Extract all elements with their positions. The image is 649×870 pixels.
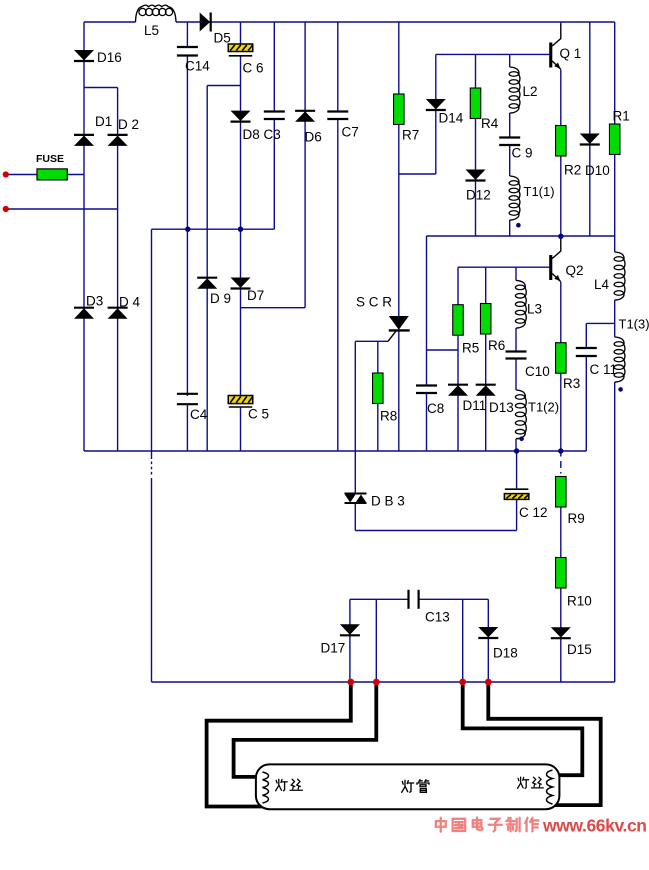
wire R9/R10/D15 vertical [560, 477, 562, 683]
wire C10 to T1(2) [515, 359, 517, 391]
wire C11 bottom to lower rail [585, 356, 587, 451]
junction node A at D8 [238, 227, 243, 232]
label R4 [481, 116, 499, 131]
svg-text:Q 1: Q 1 [560, 46, 582, 61]
diode D5 [200, 13, 211, 32]
svg-text:R2: R2 [564, 163, 581, 178]
label D10 [585, 163, 610, 178]
lamp filament right 灯丝 [547, 770, 553, 804]
wire R1 vertical [614, 22, 616, 236]
wire L4 to T1(3) [614, 300, 616, 337]
label R9 [568, 511, 585, 526]
terminal node input neutral [3, 206, 9, 212]
lamp filament left 灯丝 [263, 772, 269, 803]
capacitor C14 [177, 47, 198, 56]
label L5 [144, 23, 159, 38]
label R3 [563, 376, 580, 391]
wire Q1 base horizontal [436, 53, 550, 55]
label C9 [512, 146, 533, 161]
wire lamp left inner [234, 683, 377, 777]
transistor Q1 [549, 25, 561, 70]
wire C8 vertical upper [426, 236, 428, 386]
wire C6 top stem [240, 22, 242, 44]
diode D1 [74, 135, 94, 146]
wire lamp tap 3 vertical [462, 599, 464, 682]
label C4 [190, 407, 208, 422]
svg-text:D6: D6 [305, 130, 322, 145]
label 灯丝 left [276, 779, 303, 791]
wire C13 left horizontal [350, 598, 408, 600]
wire L2 top stem [509, 54, 511, 67]
capacitor C7 [327, 112, 348, 120]
wire C12 top stem [516, 451, 518, 488]
wire C6/D8/D7 vertical to C5 [240, 56, 242, 396]
label SCR [356, 295, 392, 310]
svg-text:C3: C3 [264, 127, 281, 142]
resistor R8 [373, 373, 384, 404]
capacitor C12 (electrolytic) [504, 489, 528, 499]
transformer winding T1(1) [509, 176, 520, 220]
wire C11 top stem [585, 323, 587, 348]
wire mid node line [427, 235, 615, 237]
capacitor C4 [177, 394, 198, 404]
label 灯丝 right [518, 777, 544, 788]
svg-text:C10: C10 [525, 364, 550, 379]
svg-text:T1(3): T1(3) [619, 317, 649, 332]
wire L3 to C10 [515, 328, 517, 352]
capacitor C9 [499, 138, 520, 146]
wire C13 right horizontal [419, 598, 488, 600]
label C13 [425, 610, 450, 625]
wire R7 to D14 horizontal [399, 173, 436, 175]
transformer winding T1(2) [515, 390, 526, 439]
wire C12 bottom stem [516, 499, 518, 530]
junction lower rail at T1(2)/C12 [514, 448, 519, 453]
svg-text:S C R: S C R [356, 295, 392, 310]
label D4 [119, 295, 141, 310]
svg-text:T1(2): T1(2) [528, 400, 559, 415]
wire Q1 emitter to R2 and node line [560, 70, 562, 237]
capacitor C13 [409, 590, 419, 609]
wire node A vertical lower to lamp node [151, 478, 153, 682]
svg-text:D10: D10 [585, 163, 610, 178]
wire R4/D12 vertical [475, 54, 477, 236]
resistor R1 [609, 124, 620, 155]
label Q2 [566, 263, 584, 278]
wire D17 vertical [349, 599, 351, 682]
wire D10 vertical [589, 22, 591, 236]
label C10 [525, 364, 550, 379]
wire lamp right inner [463, 683, 583, 775]
label D16 [97, 50, 122, 65]
inductor L5 [136, 5, 177, 22]
label R7 [402, 128, 419, 143]
diode D14 [426, 99, 446, 110]
label FUSE [36, 153, 64, 165]
wire C5 bottom to lower rail [240, 407, 242, 451]
svg-text:R10: R10 [567, 594, 592, 609]
wire terminal 2 to D2 line [6, 208, 118, 210]
inductor L3 [515, 280, 526, 328]
diode D13 [476, 385, 496, 396]
svg-text:R6: R6 [488, 338, 505, 353]
label C12 [519, 505, 548, 520]
svg-text:R3: R3 [563, 376, 580, 391]
wire R6/D13 vertical [485, 267, 487, 451]
wire D14 vertical [435, 54, 437, 174]
label D14 [439, 111, 464, 126]
wire branch to D2 line [84, 87, 118, 89]
svg-text:C 11: C 11 [590, 362, 618, 377]
wire lamp left outer [207, 683, 351, 807]
wire T1(3) down right side to lamp node [614, 382, 616, 682]
wire C9 to T1(1) [509, 145, 511, 176]
wire C14 top stem [186, 22, 188, 47]
phase dot T1(3) [618, 387, 623, 392]
wire node to L4 [614, 236, 616, 252]
wire SCR gate horizontal [355, 340, 388, 342]
svg-text:C7: C7 [342, 125, 359, 140]
diode D8 [231, 111, 251, 122]
wire DB3 to C12 horizontal [355, 530, 516, 532]
label D7 [247, 288, 264, 303]
resistor R4 [470, 88, 481, 119]
wire Q2 base horizontal [458, 266, 549, 268]
wire R8 vertical [377, 341, 379, 451]
diac DB3 [345, 494, 367, 504]
svg-text:D14: D14 [439, 111, 464, 126]
label D3 [86, 294, 103, 309]
svg-text:C14: C14 [185, 59, 210, 74]
wire C3 bottom to node A [273, 119, 275, 229]
diode D10 [580, 134, 600, 145]
wire D9 vertical [206, 86, 208, 452]
diode D16 [74, 50, 94, 61]
node lamp tap 2 [373, 679, 380, 686]
wire node A vertical upper [151, 229, 153, 459]
wire C6 branch horizontal [207, 85, 240, 87]
label D2 [118, 117, 139, 132]
node lamp tap 1 [347, 679, 354, 686]
wire D6 vertical [304, 22, 306, 308]
wire R7/SCR vertical [398, 22, 400, 451]
label D18 [493, 646, 518, 661]
wire node A horizontal [152, 228, 275, 230]
wire C11 branch horizontal [586, 322, 614, 324]
label L2 [523, 84, 538, 99]
diode D4 [108, 308, 128, 319]
capacitor C10 [506, 352, 527, 359]
svg-text:R8: R8 [380, 409, 397, 424]
wire D7 to D6 horizontal [241, 307, 306, 309]
wire node A vertical dashed part [151, 462, 153, 476]
svg-text:C13: C13 [425, 610, 450, 625]
resistor R2 [556, 126, 567, 157]
junction mid node at Q1 emitter [558, 234, 563, 239]
svg-text:R1: R1 [613, 109, 630, 124]
label D17 [321, 641, 346, 656]
wire bottom lamp node [152, 681, 615, 683]
wire top rail from L5 to R1 line [176, 21, 615, 23]
resistor R10 [556, 558, 567, 589]
label T1(1) [524, 184, 555, 199]
label D6 [305, 130, 322, 145]
label R8 [380, 409, 397, 424]
label D5 [214, 31, 231, 46]
svg-text:C 12: C 12 [519, 505, 548, 520]
node lamp tap 4 [485, 679, 492, 686]
fuse FUSE [37, 169, 67, 180]
wire C7 bottom to lower rail [337, 119, 339, 451]
wire L3 top stem [515, 267, 517, 280]
wire lower rail [84, 450, 586, 452]
svg-text:D 9: D 9 [210, 291, 231, 306]
wire top rail left of L5 [84, 21, 136, 23]
svg-text:D13: D13 [489, 400, 514, 415]
svg-text:D 4: D 4 [119, 295, 141, 310]
diode D7 [231, 278, 251, 289]
wire Q1 collector stub [560, 22, 562, 25]
diode D12 [466, 170, 486, 181]
wire D2/D4 vertical [117, 88, 119, 452]
wire C14 bottom to C4 top [186, 56, 188, 397]
resistor R5 [453, 305, 464, 336]
wire L2 to C9 [509, 113, 511, 138]
label C5 [248, 407, 269, 422]
resistor R3 [556, 343, 567, 374]
wire C7 top stem [337, 22, 339, 112]
svg-text:R7: R7 [402, 128, 419, 143]
svg-text:L4: L4 [594, 277, 610, 292]
label D12 [466, 188, 491, 203]
inductor L2 [509, 67, 520, 113]
svg-text:C8: C8 [427, 401, 444, 416]
label 灯管 center [402, 780, 429, 793]
phase dot T1(2) [519, 436, 524, 441]
diode D15 [551, 627, 571, 638]
label D1 [95, 114, 112, 129]
label D11 [463, 398, 487, 413]
svg-text:C4: C4 [190, 407, 208, 422]
svg-text:D5: D5 [214, 31, 231, 46]
wire T1(2) bottom stem [515, 439, 517, 451]
capacitor C8 [416, 386, 437, 394]
label T1(2) [528, 400, 559, 415]
node lamp tap 3 [459, 679, 466, 686]
resistor R6 [480, 304, 491, 335]
wire Q2 collector stub [560, 236, 562, 239]
label T1(3) [619, 317, 649, 332]
wire left vertical bus D16/D1/D3 [83, 22, 85, 451]
svg-text:D3: D3 [86, 294, 103, 309]
wire C4 bottom to lower rail [186, 405, 188, 452]
diode D18 [478, 627, 498, 638]
diode D6 [295, 111, 315, 122]
svg-text:D18: D18 [493, 646, 518, 661]
label C11 [590, 362, 618, 377]
label R10 [567, 594, 592, 609]
svg-text:C 5: C 5 [248, 407, 269, 422]
resistor R9 [556, 477, 567, 508]
svg-text:D B 3: D B 3 [371, 494, 405, 509]
transistor Q2 [549, 237, 561, 282]
junction lower rail at R3/R9 [558, 448, 563, 453]
wire DB3 vertical lower [354, 503, 356, 530]
svg-text:D16: D16 [97, 50, 122, 65]
transformer winding T1(3) [614, 337, 625, 382]
diode D2 [108, 135, 128, 146]
label Q1 [560, 46, 582, 61]
label C7 [342, 125, 359, 140]
wire C8 vertical lower [426, 393, 428, 451]
wire T1(1) bottom stem [509, 220, 511, 236]
svg-text:D 2: D 2 [118, 117, 139, 132]
wire Q2 emitter to R3 to lower rail [560, 282, 562, 451]
svg-text:T1(1): T1(1) [524, 184, 555, 199]
svg-text:D11: D11 [463, 398, 487, 413]
label D15 [567, 642, 592, 657]
wire lamp right outer [488, 683, 600, 805]
diode D3 [74, 308, 94, 319]
label R5 [462, 341, 479, 356]
capacitor C3 [264, 112, 285, 120]
diode D11 [448, 385, 468, 396]
wire R5/D11 vertical [457, 267, 459, 451]
wire fuse to left bus [67, 174, 84, 176]
wire C8 to R5 horizontal [427, 349, 459, 351]
wire DB3 vertical upper [354, 341, 356, 493]
resistor R7 [394, 94, 405, 125]
svg-text:C 9: C 9 [512, 146, 533, 161]
diode D9 [197, 278, 217, 289]
svg-text:R4: R4 [481, 116, 499, 131]
watermark 中国电子制作 [436, 817, 539, 831]
svg-text:D17: D17 [321, 641, 346, 656]
label C8 [427, 401, 444, 416]
wire terminal 1 to fuse [6, 174, 38, 176]
watermark www.66kv.cn [542, 816, 647, 836]
svg-text:D12: D12 [466, 188, 491, 203]
svg-text:Q2: Q2 [566, 263, 584, 278]
terminal node input live [3, 171, 9, 177]
wire D18 vertical [487, 599, 489, 682]
svg-text:www.66kv.cn: www.66kv.cn [542, 816, 647, 836]
svg-text:D8: D8 [243, 127, 260, 142]
label R1 [613, 109, 630, 124]
capacitor C5 (electrolytic) [228, 396, 253, 408]
svg-text:C 6: C 6 [243, 61, 264, 76]
svg-text:L2: L2 [523, 84, 538, 99]
label C14 [185, 59, 210, 74]
capacitor C11 [576, 348, 597, 356]
svg-text:FUSE: FUSE [36, 153, 64, 165]
label C6 [243, 61, 264, 76]
label DB3 [371, 494, 405, 509]
svg-text:R5: R5 [462, 341, 479, 356]
label D13 [489, 400, 514, 415]
junction node A at C14 [185, 227, 190, 232]
label R2 [564, 163, 581, 178]
diode D17 [340, 624, 360, 635]
svg-text:D1: D1 [95, 114, 112, 129]
label R6 [488, 338, 505, 353]
phase dot T1(1) [516, 223, 521, 228]
label L4 [594, 277, 610, 292]
label D8 [243, 127, 260, 142]
svg-text:D15: D15 [567, 642, 592, 657]
label D9 [210, 291, 231, 306]
wire C3 top stem [273, 22, 275, 112]
thyristor SCR [388, 316, 410, 341]
svg-text:D7: D7 [247, 288, 264, 303]
svg-text:L3: L3 [527, 302, 542, 317]
lamp tube 灯管 [256, 764, 560, 809]
label L3 [527, 302, 542, 317]
wire R9 dashed stub [560, 451, 562, 474]
svg-text:L5: L5 [144, 23, 159, 38]
inductor L4 [614, 252, 625, 300]
capacitor C6 (electrolytic) [228, 44, 253, 56]
svg-text:R9: R9 [568, 511, 585, 526]
wire lamp tap 2 vertical [375, 599, 377, 682]
label C3 [264, 127, 281, 142]
